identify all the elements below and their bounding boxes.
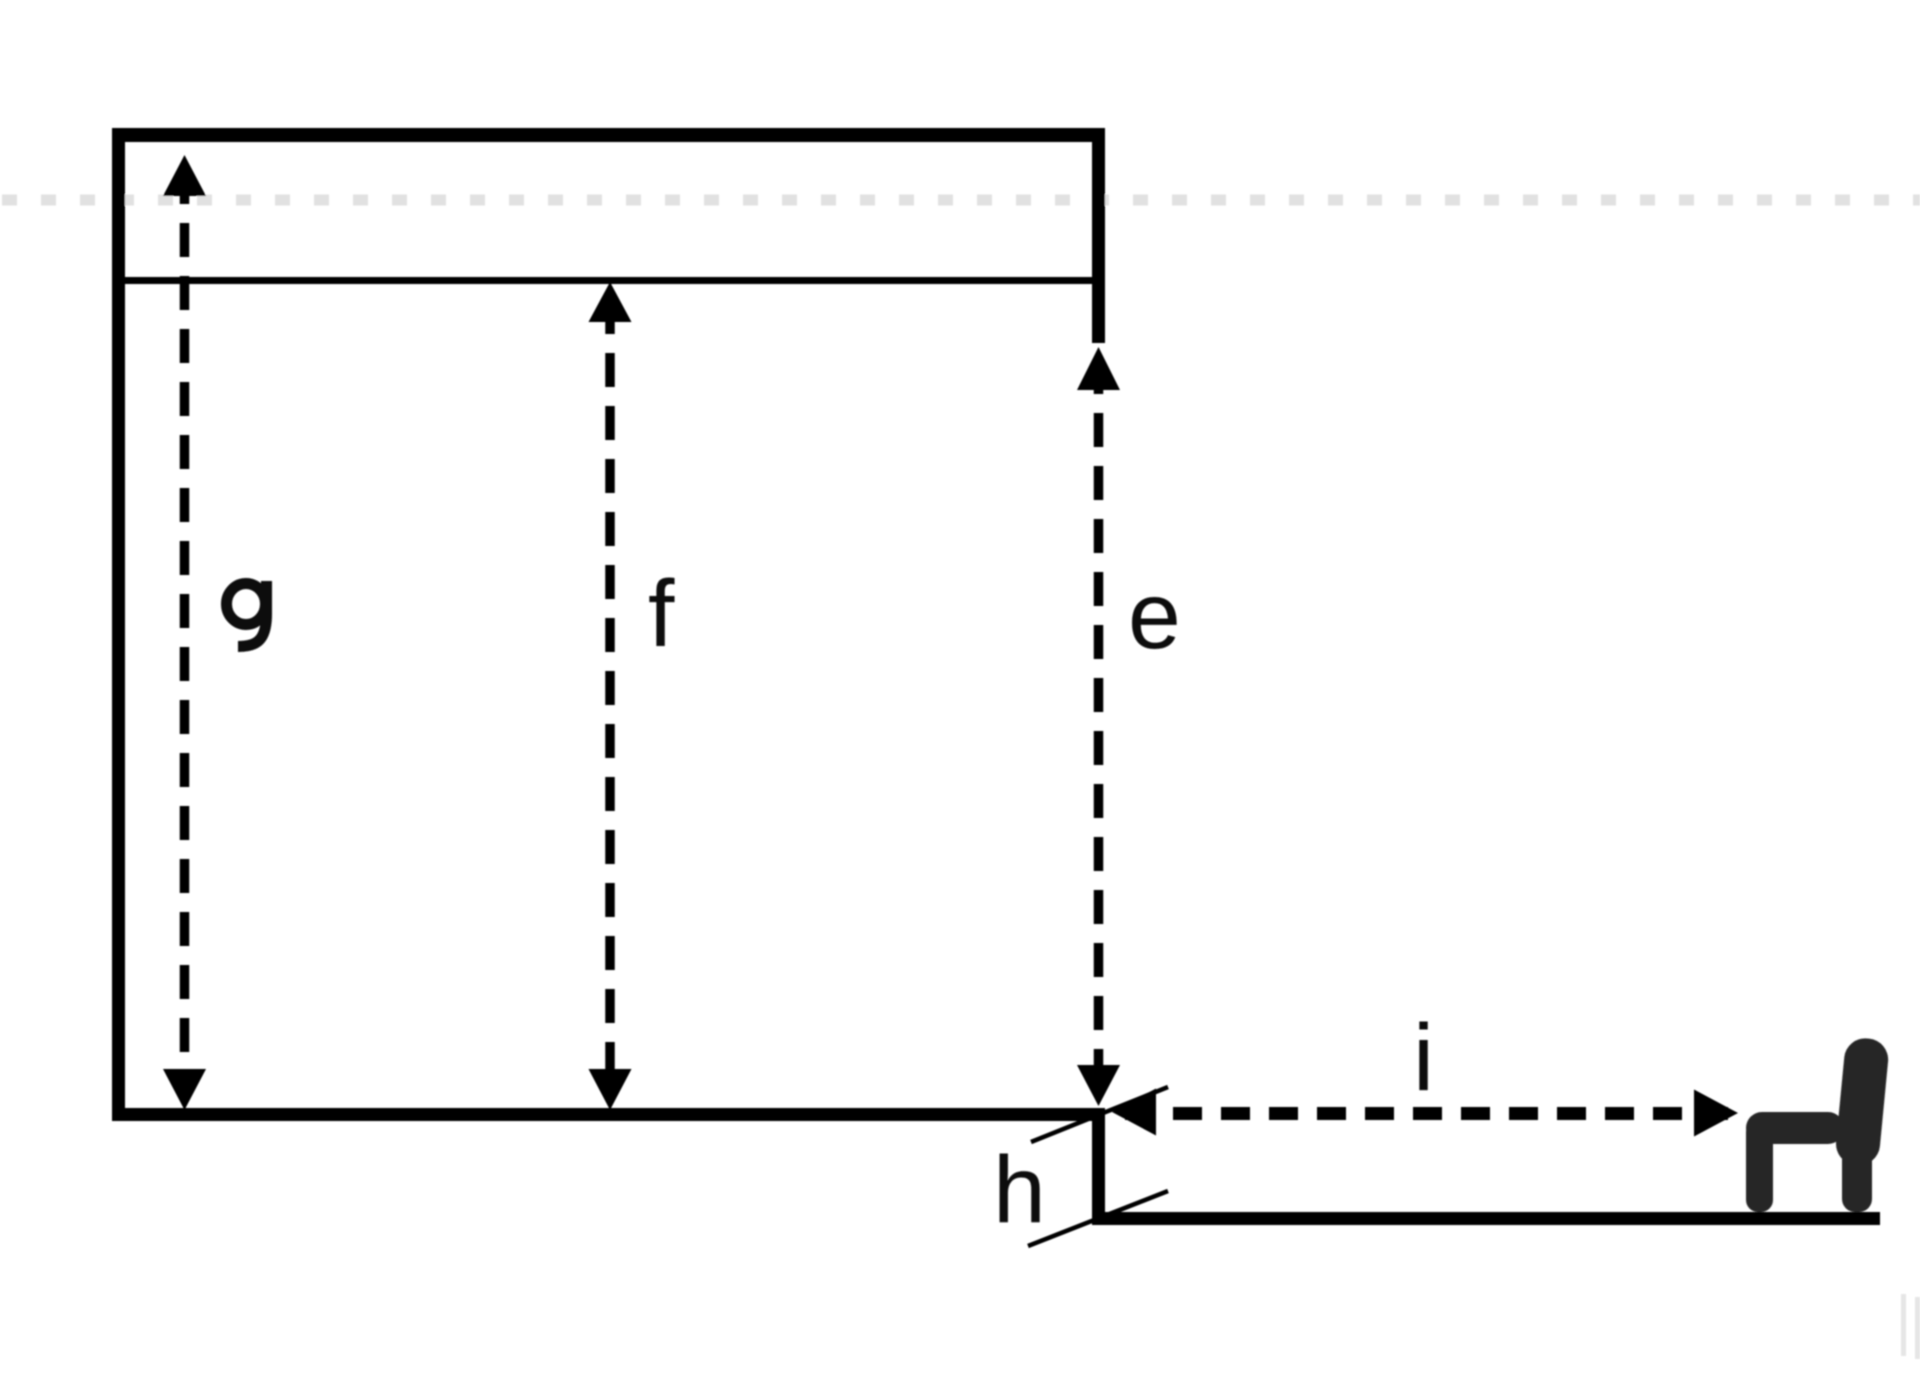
dimension g bottom arrowhead — [163, 1069, 206, 1110]
svg-text:i: i — [1413, 1005, 1434, 1111]
dimension i left arrowhead — [1112, 1089, 1156, 1136]
dimension e top arrowhead — [1077, 347, 1120, 390]
dimension i right arrowhead — [1694, 1090, 1738, 1137]
dimension g dashed line — [180, 170, 190, 1100]
chair seat — [1746, 1112, 1844, 1144]
screen bottom border — [112, 1108, 1105, 1121]
dimension g top arrowhead — [163, 155, 206, 196]
faint artifact line A — [1901, 1294, 1906, 1356]
chair front leg — [1746, 1120, 1773, 1212]
svg-text:h: h — [993, 1137, 1046, 1243]
dimension f top arrowhead — [589, 282, 632, 322]
chair rear leg — [1842, 1110, 1872, 1212]
ceiling dashed line — [2, 195, 1920, 206]
svg-text:e: e — [1128, 563, 1181, 669]
dimension i dashed line — [1125, 1107, 1728, 1120]
dimension e dashed line — [1094, 360, 1104, 1095]
step upper tick — [1031, 1087, 1168, 1142]
screen right border (partial) — [1092, 128, 1105, 343]
step vertical wall — [1092, 1108, 1105, 1224]
step lower tick — [1028, 1191, 1168, 1246]
chair backrest — [1834, 1036, 1890, 1167]
label g — [227, 581, 267, 647]
dimension f dashed line — [605, 300, 615, 1100]
svg-text:f: f — [648, 561, 675, 667]
faint artifact line B — [1915, 1297, 1920, 1359]
screen top border — [112, 128, 1105, 142]
dimension e bottom arrowhead — [1077, 1065, 1120, 1106]
screen left border — [112, 128, 125, 1121]
case bottom thin line — [125, 277, 1092, 284]
dimension f bottom arrowhead — [589, 1069, 632, 1110]
floor line — [1092, 1212, 1880, 1225]
